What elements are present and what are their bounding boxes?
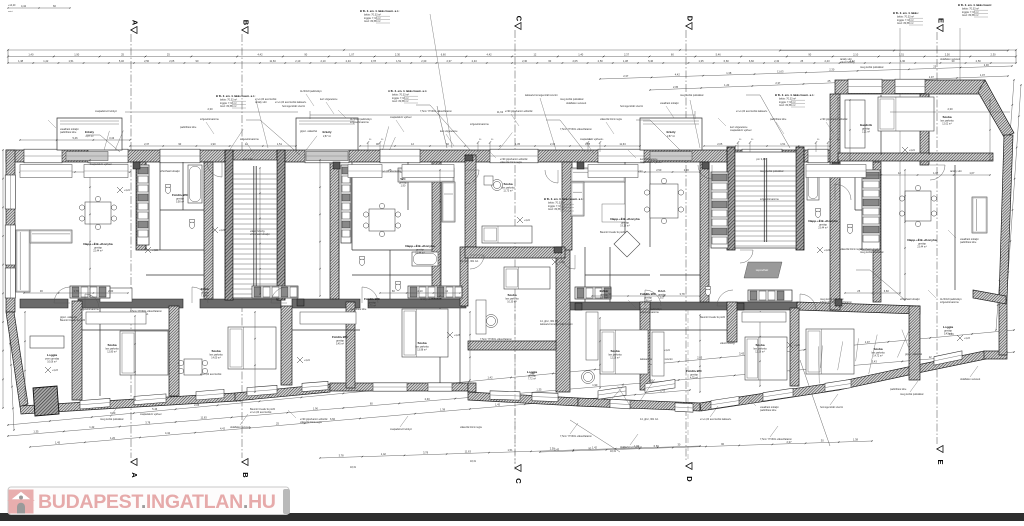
svg-text:2,30: 2,30 bbox=[829, 68, 835, 72]
svg-text:Közl.: Közl. bbox=[658, 289, 666, 293]
svg-text:11,63: 11,63 bbox=[269, 59, 276, 63]
svg-text:14, gfsz, 361 lsz.: 14, gfsz, 361 lsz. bbox=[460, 260, 479, 263]
svg-text:oldalfalon vezetett: oldalfalon vezetett bbox=[566, 102, 586, 105]
svg-text:+4,24: +4,24 bbox=[524, 220, 531, 222]
svg-text:6,60: 6,60 bbox=[884, 289, 890, 293]
svg-text:5,58 m²: 5,58 m² bbox=[176, 201, 184, 204]
svg-text:+4,23: +4,23 bbox=[454, 335, 461, 337]
svg-text:Erkély: Erkély bbox=[322, 130, 331, 134]
svg-text:1,51: 1,51 bbox=[277, 142, 283, 146]
svg-text:csapadékvíz ejtővez.: csapadékvíz ejtővez. bbox=[640, 161, 663, 164]
svg-text:Szoba: Szoba bbox=[873, 347, 882, 351]
svg-text:11,63: 11,63 bbox=[465, 449, 472, 453]
svg-text:2,50: 2,50 bbox=[656, 168, 662, 172]
svg-text:1,45: 1,45 bbox=[55, 441, 61, 445]
svg-text:csapadékvíz ejtővez.: csapadékvíz ejtővez. bbox=[730, 129, 753, 132]
svg-text:5,46: 5,46 bbox=[72, 136, 78, 140]
svg-text:14, gfsz, 361 lsz.: 14, gfsz, 361 lsz. bbox=[640, 418, 659, 421]
svg-text:1,90: 1,90 bbox=[900, 59, 906, 63]
svg-text:e=90 gipszkarton előtétfal: e=90 gipszkarton előtétfal bbox=[505, 110, 533, 113]
svg-text:üveg korlát pálcákkal: üveg korlát pálcákkal bbox=[680, 94, 704, 97]
svg-text:Szoba: Szoba bbox=[417, 341, 426, 345]
svg-text:kert szigetelésre: kert szigetelésre bbox=[320, 98, 338, 101]
svg-text:3,43: 3,43 bbox=[109, 136, 115, 140]
svg-text:7,72 m²: 7,72 m² bbox=[528, 378, 536, 381]
svg-text:+4,24: +4,24 bbox=[824, 250, 831, 252]
svg-text:2,30: 2,30 bbox=[425, 397, 431, 401]
svg-text:2,50: 2,50 bbox=[945, 53, 951, 57]
svg-text:+4,24: +4,24 bbox=[664, 350, 671, 352]
svg-text:B fh. 2. em. 4. lakás haszn. a: B fh. 2. em. 4. lakás haszn. a.t.: bbox=[360, 9, 400, 13]
svg-text:e=+1,00 acél korlát: e=+1,00 acél korlát bbox=[250, 411, 272, 414]
svg-text:2,37: 2,37 bbox=[446, 59, 452, 63]
svg-text:1,35: 1,35 bbox=[536, 388, 542, 392]
svg-text:4,70 m²: 4,70 m² bbox=[368, 305, 376, 308]
svg-text:1,20: 1,20 bbox=[724, 83, 730, 87]
svg-text:7,86 m²: 7,86 m² bbox=[201, 295, 209, 298]
svg-text:e=+1,00 acél korlát lakáselv.: e=+1,00 acél korlát lakáselv. bbox=[275, 101, 307, 104]
svg-text:1,35: 1,35 bbox=[698, 59, 704, 63]
svg-text:+4,23: +4,23 bbox=[559, 262, 566, 264]
svg-text:3,78: 3,78 bbox=[423, 451, 429, 455]
svg-text:12,02 m²: 12,02 m² bbox=[942, 123, 952, 126]
svg-text:tartály vdő: tartály vdő bbox=[950, 170, 962, 173]
svg-text:+4,24: +4,24 bbox=[909, 150, 916, 152]
svg-text:2,05: 2,05 bbox=[572, 59, 578, 63]
svg-text:1,38: 1,38 bbox=[853, 438, 859, 442]
svg-text:2,43: 2,43 bbox=[472, 59, 478, 63]
svg-text:11,73 m²: 11,73 m² bbox=[503, 190, 512, 193]
svg-text:elhúzható tolóajtó: elhúzható tolóajtó bbox=[900, 298, 920, 301]
svg-text:4,42: 4,42 bbox=[220, 426, 226, 430]
svg-text:C: C bbox=[515, 16, 524, 22]
svg-text:1,90: 1,90 bbox=[634, 444, 640, 448]
svg-text:pm 3,43: pm 3,43 bbox=[243, 157, 253, 161]
svg-text:2,37: 2,37 bbox=[775, 81, 781, 85]
svg-text:1,35: 1,35 bbox=[33, 430, 39, 434]
svg-text:padlófűtés köre: padlófűtés köre bbox=[890, 388, 907, 391]
svg-text:Szoba: Szoba bbox=[507, 293, 516, 297]
svg-text:lakáselv.homogenizált szerint: lakáselv.homogenizált szerint bbox=[525, 94, 558, 97]
svg-text:E: E bbox=[936, 459, 945, 464]
svg-text:válaszfal 10cm tégla: válaszfal 10cm tégla bbox=[500, 161, 522, 164]
svg-text:2,30: 2,30 bbox=[421, 59, 427, 63]
svg-text:4,42: 4,42 bbox=[257, 53, 263, 57]
svg-text:23,44 m²: 23,44 m² bbox=[917, 246, 927, 249]
svg-text:13,98 m²: 13,98 m² bbox=[417, 349, 427, 352]
svg-text:D: D bbox=[686, 16, 695, 22]
svg-text:Fürdő+WC: Fürdő+WC bbox=[172, 193, 188, 197]
svg-text:1,07: 1,07 bbox=[980, 73, 986, 77]
svg-text:csapadékvíz ejtővez.: csapadékvíz ejtővez. bbox=[390, 116, 413, 119]
svg-text:2,30: 2,30 bbox=[207, 107, 213, 111]
svg-text:6,86 m²: 6,86 m² bbox=[600, 297, 608, 300]
svg-text:Napp.+Étk.+Konyha: Napp.+Étk.+Konyha bbox=[610, 216, 640, 221]
svg-text:2,05: 2,05 bbox=[717, 142, 723, 146]
svg-text:Gardrób: Gardrób bbox=[860, 123, 872, 127]
svg-text:e=+1,00 acél korlát lakáselv.: e=+1,00 acél korlát lakáselv. bbox=[700, 418, 732, 421]
svg-text:össz: 80,85 m²: össz: 80,85 m² bbox=[220, 105, 237, 108]
svg-text:2,30: 2,30 bbox=[522, 59, 528, 63]
svg-text:2,43: 2,43 bbox=[643, 292, 649, 296]
svg-text:1,51: 1,51 bbox=[780, 142, 786, 146]
svg-text:össz: 80,85 m²: össz: 80,85 m² bbox=[548, 208, 565, 211]
svg-text:üveg korlát pálcákkal: üveg korlát pálcákkal bbox=[860, 251, 884, 254]
svg-text:14,72 m²: 14,72 m² bbox=[873, 355, 883, 358]
svg-text:Erkély: Erkély bbox=[666, 130, 675, 134]
svg-text:3,96 m²: 3,96 m² bbox=[644, 300, 652, 303]
svg-text:1,45: 1,45 bbox=[495, 403, 501, 407]
svg-text:5,46: 5,46 bbox=[716, 53, 722, 57]
svg-text:oldalfalon vezetett: oldalfalon vezetett bbox=[230, 426, 250, 429]
svg-text:Baumit Creativ E profil: Baumit Creativ E profil bbox=[60, 319, 85, 322]
svg-text:AL/SIGN padlóvályú: AL/SIGN padlóvályú bbox=[300, 90, 322, 93]
svg-text:szint: szint bbox=[8, 10, 13, 13]
svg-text:B: B bbox=[242, 20, 251, 26]
svg-text:A: A bbox=[131, 20, 140, 26]
svg-text:+4,23: +4,23 bbox=[794, 345, 801, 347]
svg-text:11,63: 11,63 bbox=[619, 142, 626, 146]
svg-text:6,60: 6,60 bbox=[441, 53, 447, 57]
svg-text:1,07: 1,07 bbox=[865, 340, 871, 344]
svg-text:7,5cm YTONG válaszfalazat: 7,5cm YTONG válaszfalazat bbox=[560, 435, 592, 438]
svg-text:3,78: 3,78 bbox=[145, 420, 151, 424]
svg-text:3,43: 3,43 bbox=[872, 360, 878, 364]
svg-text:csapadékvíz ejtővez.: csapadékvíz ejtővez. bbox=[580, 138, 603, 141]
svg-text:Loggia: Loggia bbox=[527, 370, 537, 374]
svg-text:össz: 80,85 m²: össz: 80,85 m² bbox=[962, 14, 979, 17]
svg-text:1,42: 1,42 bbox=[43, 59, 49, 63]
svg-text:+4,24: +4,24 bbox=[219, 230, 226, 232]
svg-text:Napp.+Étk.+Konyha: Napp.+Étk.+Konyha bbox=[405, 243, 435, 248]
svg-text:3,78: 3,78 bbox=[679, 292, 685, 296]
svg-text:7,5cm YTONG válaszfalazat: 7,5cm YTONG válaszfalazat bbox=[760, 438, 792, 441]
svg-text:csapadékvíz ejtővez.: csapadékvíz ejtővez. bbox=[90, 163, 113, 166]
svg-text:2,30: 2,30 bbox=[108, 289, 114, 293]
svg-text:2,05: 2,05 bbox=[673, 85, 679, 89]
svg-text:+4,24: +4,24 bbox=[304, 360, 311, 362]
svg-text:4,42: 4,42 bbox=[165, 431, 171, 435]
svg-text:szigetelőcsatorna: szigetelőcsatorna bbox=[760, 198, 779, 201]
svg-text:szigetelőcsatorna: szigetelőcsatorna bbox=[350, 121, 369, 124]
svg-text:2,87 m²: 2,87 m² bbox=[85, 135, 93, 138]
svg-text:6,60: 6,60 bbox=[724, 59, 730, 63]
svg-text:szigetelőcsatorna: szigetelőcsatorna bbox=[240, 138, 259, 141]
svg-text:A fh. 2. em. 4. lakás haszn. a: A fh. 2. em. 4. lakás haszn. a.t.: bbox=[388, 89, 427, 93]
svg-text:11,63: 11,63 bbox=[777, 69, 784, 73]
svg-text:csapadékvíz lefolyó: csapadékvíz lefolyó bbox=[390, 428, 412, 431]
svg-text:4,42: 4,42 bbox=[21, 4, 27, 8]
svg-text:2,30: 2,30 bbox=[395, 53, 401, 57]
svg-text:2,30: 2,30 bbox=[684, 168, 690, 172]
svg-text:Napp.+Étk.+Konyha: Napp.+Étk.+Konyha bbox=[907, 237, 937, 242]
svg-text:tartály vdő: tartály vdő bbox=[420, 298, 432, 301]
svg-text:2,43: 2,43 bbox=[774, 59, 780, 63]
svg-text:padlófűtés köre: padlófűtés köre bbox=[960, 241, 977, 244]
svg-text:18,31: 18,31 bbox=[350, 466, 357, 469]
svg-text:padlófűtés köre: padlófűtés köre bbox=[760, 409, 777, 412]
svg-text:C: C bbox=[514, 478, 523, 484]
svg-text:BUDAPEST.INGATLAN.HU: BUDAPEST.INGATLAN.HU bbox=[38, 491, 276, 513]
svg-text:1,40: 1,40 bbox=[578, 53, 584, 57]
svg-text:1,90: 1,90 bbox=[401, 185, 406, 188]
svg-text:homogenizált szerint: homogenizált szerint bbox=[282, 105, 305, 108]
svg-text:Baumit Creativ E profil: Baumit Creativ E profil bbox=[700, 316, 725, 319]
svg-text:kert szigetelésre: kert szigetelésre bbox=[440, 130, 458, 133]
svg-text:12,80 m²: 12,80 m² bbox=[107, 351, 117, 354]
svg-text:B: B bbox=[241, 472, 250, 478]
svg-text:2,43: 2,43 bbox=[346, 59, 352, 63]
svg-text:3,78: 3,78 bbox=[371, 59, 377, 63]
svg-text:üveg korlát pálcákkal: üveg korlát pálcákkal bbox=[860, 66, 884, 69]
svg-text:lakáselv.homogenizált szerint: lakáselv.homogenizált szerint bbox=[540, 323, 573, 326]
svg-text:1,90: 1,90 bbox=[74, 53, 80, 57]
svg-text:Erkély: Erkély bbox=[85, 130, 94, 134]
svg-text:gipsz. válaszfal: gipsz. válaszfal bbox=[905, 353, 922, 356]
svg-text:6,60: 6,60 bbox=[749, 59, 755, 63]
svg-text:2,37: 2,37 bbox=[623, 74, 629, 78]
svg-text:7,5cm YTONG válaszfalazat: 7,5cm YTONG válaszfalazat bbox=[420, 110, 452, 113]
svg-text:Szoba: Szoba bbox=[107, 343, 116, 347]
svg-text:1,90: 1,90 bbox=[592, 383, 598, 387]
svg-text:2,10: 2,10 bbox=[295, 59, 301, 63]
svg-text:Szoba: Szoba bbox=[503, 182, 512, 186]
svg-text:2,87 m²: 2,87 m² bbox=[667, 135, 675, 138]
svg-text:5,43 m²: 5,43 m² bbox=[944, 333, 952, 336]
svg-text:össz: 80,85 m²: össz: 80,85 m² bbox=[897, 22, 914, 25]
svg-text:Baumit Creativ E profil: Baumit Creativ E profil bbox=[600, 231, 625, 234]
svg-text:Fürdő+WC: Fürdő+WC bbox=[364, 297, 380, 301]
svg-text:Lépcsőház: Lépcsőház bbox=[756, 268, 769, 272]
svg-text:1,20: 1,20 bbox=[110, 436, 116, 440]
svg-text:Szoba: Szoba bbox=[942, 115, 951, 119]
svg-text:2,30: 2,30 bbox=[984, 63, 990, 67]
svg-text:+4,23: +4,23 bbox=[52, 370, 59, 372]
svg-text:válaszfal 10cm tégla: válaszfal 10cm tégla bbox=[300, 421, 322, 424]
svg-text:10,06 m²: 10,06 m² bbox=[47, 361, 57, 364]
svg-text:1,35: 1,35 bbox=[515, 142, 521, 146]
svg-text:B fh. 2. em. 4. lakás haszn. a: B fh. 2. em. 4. lakás haszn. a.t.: bbox=[775, 93, 815, 97]
svg-text:össz: 80,85 m²: össz: 80,85 m² bbox=[364, 20, 381, 23]
svg-text:1,42: 1,42 bbox=[592, 445, 598, 449]
svg-text:Napp.+Étk.+Konyha: Napp.+Étk.+Konyha bbox=[808, 218, 838, 223]
svg-text:Fürdő+WC: Fürdő+WC bbox=[332, 335, 348, 339]
svg-text:padlófűtés köre: padlófűtés köre bbox=[180, 126, 197, 129]
svg-text:3,07: 3,07 bbox=[660, 297, 665, 300]
svg-text:18,31: 18,31 bbox=[610, 450, 617, 453]
svg-text:1,40: 1,40 bbox=[28, 53, 34, 57]
svg-text:Előtér: Előtér bbox=[201, 287, 211, 291]
svg-text:2,50: 2,50 bbox=[598, 59, 604, 63]
svg-text:2,30: 2,30 bbox=[947, 107, 953, 111]
svg-text:1,90: 1,90 bbox=[210, 142, 216, 146]
svg-text:5,46: 5,46 bbox=[648, 59, 654, 63]
svg-text:szigetelőcsatorna: szigetelőcsatorna bbox=[470, 123, 489, 126]
svg-text:2,21 m²: 2,21 m² bbox=[862, 131, 870, 134]
svg-text:Loggia: Loggia bbox=[47, 353, 57, 357]
svg-text:csapadékvíz ejtővez.: csapadékvíz ejtővez. bbox=[140, 413, 163, 416]
svg-text:vakolt hőszig.: vakolt hőszig. bbox=[720, 342, 735, 345]
svg-text:vakolt hőszig.: vakolt hőszig. bbox=[840, 61, 855, 64]
svg-text:üveg korlát pálcákkal: üveg korlát pálcákkal bbox=[760, 170, 784, 173]
svg-text:Loggia: Loggia bbox=[943, 325, 953, 329]
svg-text:csapadékvíz lefolyó: csapadékvíz lefolyó bbox=[95, 110, 117, 113]
svg-text:3,78: 3,78 bbox=[73, 289, 79, 293]
svg-text:2,50: 2,50 bbox=[550, 447, 556, 451]
svg-text:2,37: 2,37 bbox=[624, 53, 630, 57]
svg-text:homogenizált szerint: homogenizált szerint bbox=[620, 105, 643, 108]
svg-text:4,42: 4,42 bbox=[487, 53, 493, 57]
svg-text:5,46: 5,46 bbox=[152, 407, 158, 411]
svg-text:2,43: 2,43 bbox=[554, 447, 560, 451]
svg-text:6,60: 6,60 bbox=[110, 411, 116, 415]
svg-text:12,16 m²: 12,16 m² bbox=[610, 357, 620, 360]
svg-text:Napp.+Étk.+Konyha: Napp.+Étk.+Konyha bbox=[83, 241, 113, 246]
svg-text:2,37: 2,37 bbox=[144, 142, 150, 146]
svg-text:2,50: 2,50 bbox=[976, 59, 982, 63]
svg-text:1,07: 1,07 bbox=[929, 75, 935, 79]
svg-text:2,10: 2,10 bbox=[417, 289, 423, 293]
svg-text:e=+1,00 acél korlát lakáselv.: e=+1,00 acél korlát lakáselv. bbox=[736, 110, 768, 113]
svg-text:23,44 m²: 23,44 m² bbox=[818, 227, 828, 230]
svg-text:18,31: 18,31 bbox=[470, 460, 477, 463]
svg-text:2,05: 2,05 bbox=[169, 59, 175, 63]
svg-text:üveg korlát pálcákkal: üveg korlát pálcákkal bbox=[900, 393, 924, 396]
svg-text:e=+1,00 acél korlát: e=+1,00 acél korlát bbox=[200, 373, 222, 376]
svg-text:7,5cm YTONG válaszfalazat: 7,5cm YTONG válaszfalazat bbox=[560, 128, 592, 131]
svg-text:E: E bbox=[937, 18, 946, 23]
svg-text:oldalfalon vezetett: oldalfalon vezetett bbox=[960, 378, 980, 381]
svg-text:pm 3,43: pm 3,43 bbox=[756, 157, 766, 161]
svg-text:4,75 m²: 4,75 m² bbox=[690, 377, 698, 380]
svg-text:szigetelőcsatorna: szigetelőcsatorna bbox=[940, 301, 959, 304]
svg-text:11,63: 11,63 bbox=[200, 416, 207, 420]
svg-text:3,78: 3,78 bbox=[339, 453, 345, 457]
svg-text:válaszfal 10cm tégla: válaszfal 10cm tégla bbox=[840, 248, 862, 251]
svg-text:2,30: 2,30 bbox=[991, 53, 997, 57]
svg-text:homogenizált szerint: homogenizált szerint bbox=[820, 406, 843, 409]
svg-text:7,5cm YTONG válaszfalazat: 7,5cm YTONG válaszfalazat bbox=[480, 338, 512, 341]
svg-text:2,10: 2,10 bbox=[320, 59, 326, 63]
svg-text:elhúzható tolóajtó: elhúzható tolóajtó bbox=[160, 170, 180, 173]
svg-text:3,43: 3,43 bbox=[739, 352, 745, 356]
svg-text:oldalfalon vezetett: oldalfalon vezetett bbox=[940, 58, 960, 61]
svg-text:szigetelőcsatorna: szigetelőcsatorna bbox=[200, 118, 219, 121]
svg-text:1,07: 1,07 bbox=[969, 171, 975, 175]
svg-text:padlófűtés köre: padlófűtés köre bbox=[770, 118, 787, 121]
svg-text:+4,23: +4,23 bbox=[964, 338, 971, 340]
svg-text:1,38: 1,38 bbox=[623, 59, 629, 63]
svg-text:10,30 m²: 10,30 m² bbox=[507, 301, 517, 304]
svg-text:2,43: 2,43 bbox=[824, 59, 830, 63]
svg-text:üveg korlát pálcákkal: üveg korlát pálcákkal bbox=[560, 98, 584, 101]
svg-text:padlófűtés köre: padlófűtés köre bbox=[350, 308, 367, 311]
svg-text:1,38: 1,38 bbox=[440, 407, 446, 411]
svg-text:válaszfal 10cm tégla: válaszfal 10cm tégla bbox=[600, 118, 622, 121]
svg-text:szigetelőcsatorna: szigetelőcsatorna bbox=[640, 311, 659, 314]
svg-text:+4,23: +4,23 bbox=[152, 250, 159, 252]
svg-text:szigetelőcsatorna: szigetelőcsatorna bbox=[80, 308, 99, 311]
svg-text:1,51: 1,51 bbox=[899, 53, 905, 57]
svg-text:19,16 m²: 19,16 m² bbox=[620, 225, 630, 228]
svg-text:14,00 m²: 14,00 m² bbox=[211, 357, 221, 360]
svg-text:5,45 m²: 5,45 m² bbox=[336, 343, 344, 346]
svg-text:1,38: 1,38 bbox=[726, 71, 732, 75]
svg-text:11,62: 11,62 bbox=[497, 110, 504, 114]
svg-text:1,51: 1,51 bbox=[396, 59, 402, 63]
svg-text:1,38: 1,38 bbox=[18, 59, 24, 63]
svg-text:1,42: 1,42 bbox=[488, 375, 494, 379]
svg-text:B fh. 2. em. 4. lakás haszn:: B fh. 2. em. 4. lakás haszn: bbox=[958, 3, 992, 7]
svg-text:Szoba: Szoba bbox=[610, 349, 619, 353]
svg-text:1,07: 1,07 bbox=[933, 171, 939, 175]
svg-text:22,44 m²: 22,44 m² bbox=[93, 250, 103, 253]
svg-text:6,60: 6,60 bbox=[330, 417, 336, 421]
svg-text:üveg korlát pálcákkal: üveg korlát pálcákkal bbox=[100, 418, 124, 421]
svg-text:e=90 gipszkarton előtétfal: e=90 gipszkarton előtétfal bbox=[820, 118, 848, 121]
svg-text:B fh. 2. em. 4. lakás haszn. a: B fh. 2. em. 4. lakás haszn. a.t.: bbox=[216, 94, 256, 98]
svg-text:D: D bbox=[685, 476, 694, 482]
svg-text:1,51: 1,51 bbox=[507, 448, 513, 452]
svg-text:1,42: 1,42 bbox=[381, 452, 387, 456]
svg-text:padlófűtés köre: padlófűtés köre bbox=[60, 131, 77, 134]
svg-text:22,44 m²: 22,44 m² bbox=[415, 252, 425, 255]
svg-text:B fh. 2. em. 3. lakás haszn. a: B fh. 2. em. 3. lakás haszn. a.t.: bbox=[544, 197, 584, 201]
svg-text:vasalható tolóajtó: vasalható tolóajtó bbox=[660, 102, 679, 105]
svg-text:4,42: 4,42 bbox=[675, 73, 681, 77]
svg-text:1,07: 1,07 bbox=[349, 53, 355, 57]
svg-text:1,51: 1,51 bbox=[68, 59, 74, 63]
svg-text:1,90: 1,90 bbox=[313, 406, 319, 410]
svg-text:A: A bbox=[130, 472, 139, 478]
svg-text:1,42: 1,42 bbox=[89, 425, 95, 429]
svg-text:össz: 80,85 m²: össz: 80,85 m² bbox=[779, 104, 796, 107]
svg-text:2,50: 2,50 bbox=[144, 59, 150, 63]
svg-text:+4,24: +4,24 bbox=[124, 190, 131, 192]
svg-text:+14,20: +14,20 bbox=[8, 4, 16, 7]
svg-text:2,87 m²: 2,87 m² bbox=[323, 135, 331, 138]
svg-text:Szoba: Szoba bbox=[211, 349, 220, 353]
svg-text:válaszfal 10cm tégla: válaszfal 10cm tégla bbox=[460, 426, 482, 429]
svg-text:5,46: 5,46 bbox=[119, 59, 125, 63]
svg-text:B fh. 2. em. 4. lakás:: B fh. 2. em. 4. lakás: bbox=[893, 11, 919, 15]
svg-text:össz: 80,85 m²: össz: 80,85 m² bbox=[392, 100, 409, 103]
svg-text:2,10: 2,10 bbox=[853, 53, 859, 57]
svg-text:gipsz. válaszfal: gipsz. válaszfal bbox=[300, 130, 317, 133]
